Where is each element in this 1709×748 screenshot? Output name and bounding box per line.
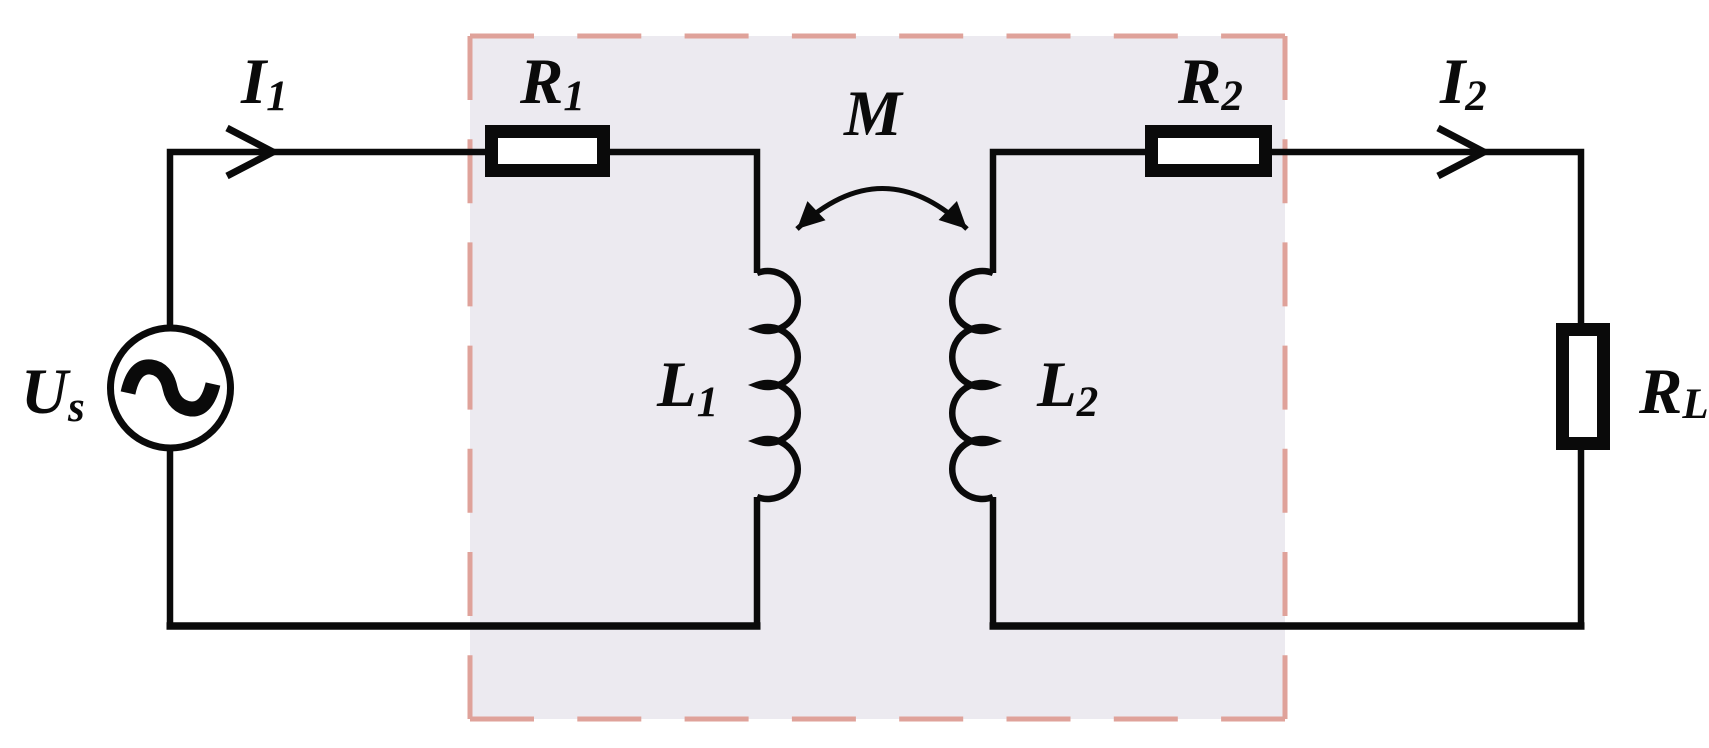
svg-text:M: M [843, 78, 904, 150]
